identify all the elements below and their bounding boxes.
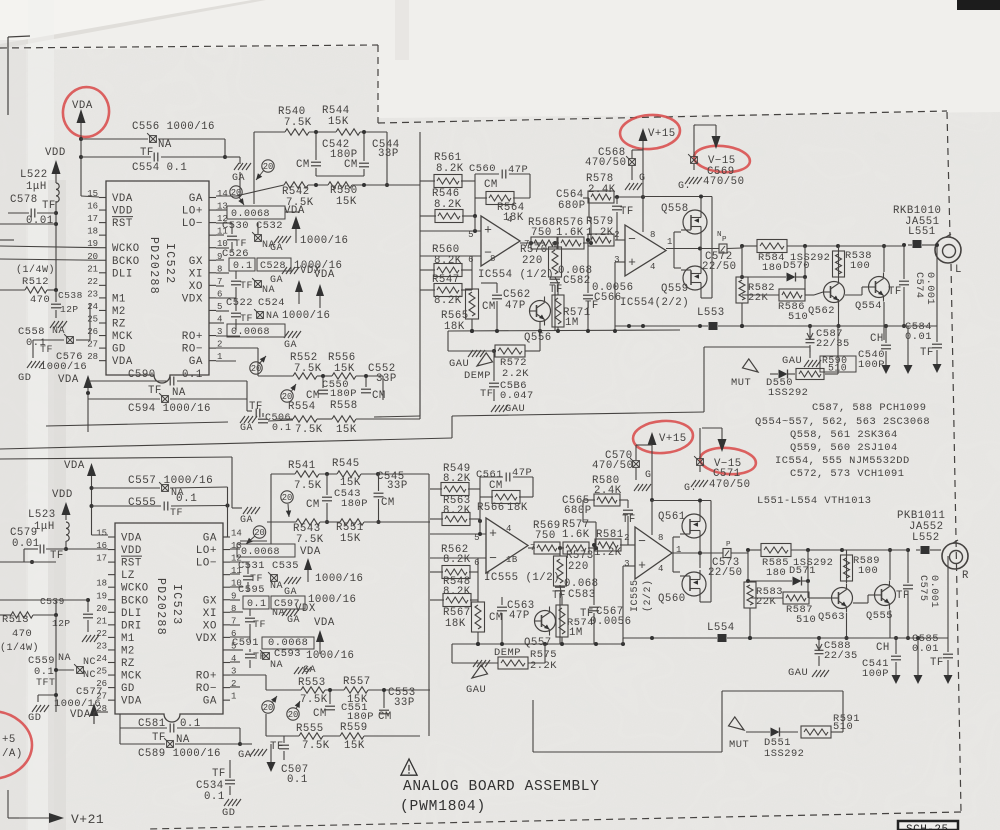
svg-text:21: 21 xyxy=(96,616,107,626)
junction mark 20 xyxy=(262,696,277,713)
dashed board outline bottom xyxy=(148,812,961,829)
svg-text:RZ: RZ xyxy=(121,658,135,670)
wire xyxy=(247,381,252,411)
ground GD top xyxy=(18,361,44,384)
svg-text:(1/4W): (1/4W) xyxy=(0,642,39,654)
ground GA xyxy=(270,236,291,254)
svg-text:7.5K: 7.5K xyxy=(300,694,328,706)
svg-text:LO−: LO− xyxy=(196,558,217,570)
svg-text:TF: TF xyxy=(170,508,183,519)
ground GAU b xyxy=(466,660,490,696)
svg-text:CM: CM xyxy=(306,499,320,511)
svg-text:VDD: VDD xyxy=(52,489,73,501)
red circle annotation VDA xyxy=(60,84,113,140)
svg-text:Q561: Q561 xyxy=(658,511,686,523)
svg-text:33P: 33P xyxy=(394,697,415,709)
svg-text:2: 2 xyxy=(624,533,630,543)
capacitor C571 xyxy=(694,452,750,491)
diode D551 xyxy=(746,728,804,761)
svg-text:C577: C577 xyxy=(76,686,103,698)
svg-text:470/50: 470/50 xyxy=(592,460,633,472)
wire long vertical xyxy=(46,132,420,426)
wire xyxy=(699,428,701,452)
svg-text:25: 25 xyxy=(96,667,107,677)
transistor Q562 xyxy=(808,246,845,328)
svg-text:8: 8 xyxy=(650,230,656,240)
svg-text:VDA: VDA xyxy=(112,193,133,205)
svg-text:23: 23 xyxy=(87,289,98,299)
svg-text:TF: TF xyxy=(270,741,284,753)
resistor R569 xyxy=(533,520,561,554)
wire xyxy=(258,348,383,400)
svg-text:VDX: VDX xyxy=(295,603,316,615)
svg-text:21: 21 xyxy=(87,264,98,274)
svg-text:180: 180 xyxy=(766,567,786,579)
svg-text:TF: TF xyxy=(148,385,162,397)
ground G b2 xyxy=(684,480,708,494)
svg-text:8.2K: 8.2K xyxy=(436,163,464,175)
svg-text:1000/16: 1000/16 xyxy=(315,573,363,585)
resistor R543 xyxy=(293,519,324,546)
resistor R542 xyxy=(282,182,314,209)
svg-text:VDX: VDX xyxy=(196,633,217,645)
svg-text:14: 14 xyxy=(217,189,228,199)
wire xyxy=(236,183,420,196)
svg-text:33P: 33P xyxy=(387,480,408,492)
svg-text:TF: TF xyxy=(253,620,266,631)
svg-text:GA: GA xyxy=(240,515,253,526)
resistor R568 xyxy=(528,217,557,249)
svg-text:D570: D570 xyxy=(783,260,810,272)
power label V+15 b xyxy=(659,433,687,445)
wire GAU staircase xyxy=(452,347,810,416)
capacitor C524 NA xyxy=(254,297,330,322)
svg-text:NA: NA xyxy=(52,326,65,337)
svg-text:100: 100 xyxy=(858,565,878,577)
power label V+15 xyxy=(648,128,676,140)
svg-text:VDD: VDD xyxy=(45,147,66,159)
dashed board outline top xyxy=(0,45,378,48)
svg-text:0.047: 0.047 xyxy=(500,390,534,402)
svg-text:24: 24 xyxy=(87,302,98,312)
svg-text:CM: CM xyxy=(372,390,386,402)
svg-text:6: 6 xyxy=(474,558,480,568)
wire xyxy=(223,487,228,537)
svg-text:220: 220 xyxy=(568,561,589,573)
label C574 0.001 xyxy=(913,272,935,305)
node VDA label xyxy=(72,100,93,112)
svg-text:GA: GA xyxy=(287,615,300,626)
wire pin14 GA xyxy=(216,172,240,196)
svg-text:PD20288: PD20288 xyxy=(147,237,160,295)
svg-text:27: 27 xyxy=(87,340,98,350)
svg-text:Q559, 560 2SJ104: Q559, 560 2SJ104 xyxy=(790,442,898,454)
svg-text:TF: TF xyxy=(622,514,636,526)
svg-text:−: − xyxy=(638,534,646,549)
svg-text:VDA: VDA xyxy=(72,100,93,112)
wire pin13 xyxy=(216,209,222,211)
sheet label box bottom right xyxy=(898,821,958,830)
svg-text:0.1: 0.1 xyxy=(287,774,308,786)
svg-text:RKB1010: RKB1010 xyxy=(893,205,941,217)
wire xyxy=(223,139,240,164)
svg-text:VDA: VDA xyxy=(70,709,91,721)
power arrow V-15 xyxy=(696,125,721,149)
svg-text:22/35: 22/35 xyxy=(816,338,850,350)
fet Q559 xyxy=(661,264,707,295)
capacitor C541 xyxy=(862,658,889,680)
capacitor C583 xyxy=(552,578,599,644)
svg-text:L552: L552 xyxy=(912,532,940,544)
parts list text 2 xyxy=(757,495,872,507)
svg-text:C589 1000/16: C589 1000/16 xyxy=(138,748,221,760)
svg-text:R512: R512 xyxy=(22,276,49,288)
svg-text:GD: GD xyxy=(18,372,31,384)
capacitor C573 NP xyxy=(708,541,748,579)
capacitor C552 xyxy=(361,363,397,402)
transistor Q557 xyxy=(524,607,556,650)
wire xyxy=(420,256,472,290)
svg-text:C572, 573 VCH1091: C572, 573 VCH1091 xyxy=(790,468,905,480)
wire RO rows b xyxy=(230,675,266,687)
demp arrow b xyxy=(472,647,521,678)
IC523 left pins xyxy=(96,529,148,715)
svg-text:0.01: 0.01 xyxy=(12,538,40,550)
svg-text:C583: C583 xyxy=(568,589,596,601)
svg-text:VDA: VDA xyxy=(300,546,321,558)
ground GA b2 xyxy=(238,749,267,761)
left edge vertical line xyxy=(7,37,9,115)
svg-text:TF: TF xyxy=(580,608,594,620)
svg-text:1SS292: 1SS292 xyxy=(764,748,804,760)
capacitor C559 xyxy=(28,615,83,712)
svg-text:1M: 1M xyxy=(569,627,583,639)
capacitor C526 xyxy=(222,248,255,272)
svg-text:R545: R545 xyxy=(332,458,360,470)
svg-text:0.1: 0.1 xyxy=(182,369,203,381)
capacitor C564 xyxy=(556,189,591,243)
svg-text:GAU: GAU xyxy=(788,667,808,679)
power arrow V-15 b xyxy=(702,428,727,452)
svg-text:16: 16 xyxy=(96,541,107,551)
svg-text:0.01: 0.01 xyxy=(905,331,932,343)
svg-text:GD: GD xyxy=(28,712,41,724)
svg-text:JA551: JA551 xyxy=(905,216,940,228)
svg-text:NA: NA xyxy=(262,285,275,296)
svg-text:NA: NA xyxy=(270,660,283,671)
svg-text:+: + xyxy=(638,558,646,573)
svg-text:DRI: DRI xyxy=(121,620,142,632)
svg-text:(2/2): (2/2) xyxy=(642,579,654,612)
svg-text:TF: TF xyxy=(480,388,493,400)
resistor R570 xyxy=(520,241,562,283)
wire -in xyxy=(624,239,626,241)
resistor R581 xyxy=(594,529,624,559)
svg-text:0.0056: 0.0056 xyxy=(590,616,631,628)
label (1/4W) top xyxy=(16,264,55,276)
svg-text:1000/16: 1000/16 xyxy=(306,650,354,662)
wire inputs xyxy=(420,216,481,256)
svg-text:3: 3 xyxy=(624,559,630,569)
signal ground arrow xyxy=(904,326,913,374)
svg-text:0.001: 0.001 xyxy=(928,575,939,608)
label +5 xyxy=(2,734,23,760)
resistor R572 xyxy=(492,345,529,380)
svg-text:Q557: Q557 xyxy=(524,637,552,649)
parts list text xyxy=(755,402,930,480)
svg-text:L522: L522 xyxy=(20,169,48,181)
svg-text:1000/16: 1000/16 xyxy=(300,235,348,247)
capacitor C534 xyxy=(196,760,235,803)
capacitor C539 xyxy=(40,596,93,632)
capacitor C590 xyxy=(88,369,247,397)
signal ground arrow xyxy=(933,364,942,373)
svg-text:0.1: 0.1 xyxy=(34,666,54,678)
resistor R546 xyxy=(432,188,463,223)
resistor R591 xyxy=(801,691,860,738)
capacitor C588 xyxy=(815,636,858,666)
svg-text:TF: TF xyxy=(552,590,566,602)
svg-text:NC: NC xyxy=(83,670,96,681)
power arrow VDD xyxy=(52,160,61,183)
resistor R573 xyxy=(554,546,594,597)
resistor R583 xyxy=(744,581,783,640)
ground GA b xyxy=(294,665,316,676)
label VDX GA xyxy=(272,603,316,626)
svg-text:VDX: VDX xyxy=(182,293,203,305)
wire xyxy=(266,714,420,736)
svg-text:VDA: VDA xyxy=(121,533,142,545)
svg-text:180P: 180P xyxy=(341,498,368,510)
svg-text:470/50: 470/50 xyxy=(709,479,750,491)
svg-text:12P: 12P xyxy=(60,304,79,315)
capacitor C531 xyxy=(238,560,265,592)
svg-text:C587, 588 PCH1099: C587, 588 PCH1099 xyxy=(812,402,927,414)
svg-text:TF: TF xyxy=(42,200,56,212)
wire VDA to IC bottom xyxy=(58,374,93,432)
wire IC523 pin rows xyxy=(230,549,250,662)
wire xyxy=(470,289,474,333)
svg-text:CM: CM xyxy=(381,497,395,509)
wire xyxy=(583,198,591,218)
svg-text:25: 25 xyxy=(87,315,98,325)
svg-text:C530: C530 xyxy=(222,220,249,232)
svg-text:GD: GD xyxy=(112,344,126,356)
svg-text:1: 1 xyxy=(231,692,236,702)
svg-text:RO+: RO+ xyxy=(196,671,217,683)
svg-text:100P: 100P xyxy=(862,668,889,680)
svg-text:22/35: 22/35 xyxy=(824,650,858,662)
svg-text:Q556: Q556 xyxy=(524,332,552,344)
svg-text:23: 23 xyxy=(96,641,107,651)
svg-text:XO: XO xyxy=(189,281,203,293)
svg-text:+: + xyxy=(489,526,497,541)
svg-text:7.5K: 7.5K xyxy=(294,363,322,375)
svg-text:1B: 1B xyxy=(506,555,518,565)
warning triangle xyxy=(401,759,417,775)
svg-text:47P: 47P xyxy=(509,610,530,622)
wire xyxy=(452,644,545,663)
svg-text:22: 22 xyxy=(87,277,98,287)
svg-text:CM: CM xyxy=(489,612,503,624)
node VDA label xyxy=(284,205,305,243)
svg-text:15K: 15K xyxy=(334,363,355,375)
svg-text:TF: TF xyxy=(40,345,53,356)
wire xyxy=(528,545,635,550)
capacitor C562 CM xyxy=(482,283,531,331)
wire VDA rail xyxy=(79,137,99,197)
svg-text:+5: +5 xyxy=(2,734,16,746)
svg-text:P: P xyxy=(726,541,731,549)
svg-text:GA: GA xyxy=(240,423,253,434)
resistor R580 xyxy=(583,475,628,522)
svg-text:GAU: GAU xyxy=(782,355,802,367)
svg-text:20: 20 xyxy=(282,493,293,503)
svg-text:NA: NA xyxy=(270,581,283,592)
svg-text:12P: 12P xyxy=(52,618,71,629)
svg-text:IC555: IC555 xyxy=(630,579,641,612)
wire xyxy=(316,175,364,177)
wire out to C573 xyxy=(700,552,723,554)
svg-text:R557: R557 xyxy=(343,676,371,688)
capacitor C593 xyxy=(245,648,354,671)
svg-text:33P: 33P xyxy=(378,148,399,160)
wire fet bracket xyxy=(643,195,712,299)
svg-text:TF: TF xyxy=(549,284,563,296)
svg-text:0.1: 0.1 xyxy=(233,261,253,272)
DAC IC522 body xyxy=(106,181,209,383)
resistor R552 xyxy=(290,352,322,379)
svg-text:15K: 15K xyxy=(344,740,365,752)
svg-text:15: 15 xyxy=(87,189,98,199)
svg-text:1.2K: 1.2K xyxy=(594,547,622,559)
capacitor C544 xyxy=(344,130,400,176)
wire fet bracket b xyxy=(652,499,711,603)
inductor L522 xyxy=(20,169,59,290)
node VDX arrow xyxy=(295,280,303,304)
wire xyxy=(0,224,56,240)
svg-text:GA: GA xyxy=(270,243,283,254)
capacitor C597 boxed xyxy=(271,594,356,610)
wire xyxy=(430,558,478,600)
capacitor TF NA xyxy=(231,271,275,298)
ground GAU xyxy=(491,403,525,415)
power label V-15 xyxy=(708,155,736,167)
svg-text:20: 20 xyxy=(96,604,107,614)
svg-text:C591: C591 xyxy=(232,637,259,649)
mute arrow b xyxy=(729,717,750,751)
svg-text:GA: GA xyxy=(284,340,297,351)
svg-text:WCKO: WCKO xyxy=(112,243,140,255)
capacitor C577 xyxy=(54,686,103,710)
wire xyxy=(651,500,653,535)
title PWM1804 xyxy=(400,799,486,815)
svg-text:2: 2 xyxy=(231,679,236,689)
label JA551 xyxy=(905,216,940,228)
svg-text:GA: GA xyxy=(238,749,252,761)
svg-text:R558: R558 xyxy=(330,400,358,412)
svg-text:C528: C528 xyxy=(260,261,286,272)
resistor R554 xyxy=(288,401,323,436)
svg-text:33P: 33P xyxy=(376,373,397,385)
svg-text:PD20288: PD20288 xyxy=(154,578,167,636)
svg-text:22/50: 22/50 xyxy=(702,261,737,273)
wire left edge rows xyxy=(0,599,56,601)
svg-text:4: 4 xyxy=(506,524,512,534)
svg-text:100P: 100P xyxy=(858,359,885,371)
ground GA xyxy=(232,163,251,184)
svg-text:C578: C578 xyxy=(10,194,38,206)
svg-text:0.0068: 0.0068 xyxy=(231,209,270,220)
signal ground arrow xyxy=(882,365,891,374)
resistor R512 xyxy=(0,276,58,306)
svg-text:C582: C582 xyxy=(563,275,591,287)
red circle annotation +5 xyxy=(0,711,32,779)
wire xyxy=(615,262,625,331)
mute arrow xyxy=(731,359,758,389)
svg-text:PKB1011: PKB1011 xyxy=(897,510,945,522)
svg-text:XI: XI xyxy=(203,608,217,620)
label VDX GA xyxy=(270,265,321,286)
junction mark 20 xyxy=(281,384,296,402)
svg-text:LZ: LZ xyxy=(121,570,135,582)
svg-text:(PWM1804): (PWM1804) xyxy=(400,799,486,815)
capacitor C506 xyxy=(258,413,292,434)
svg-text:7.5K: 7.5K xyxy=(296,534,324,546)
label 1000/16 xyxy=(315,573,363,585)
svg-text:G: G xyxy=(639,173,646,184)
power arrow V+15 b xyxy=(648,432,657,502)
svg-text:7.5K: 7.5K xyxy=(294,480,322,492)
svg-text:IC554(2/2): IC554(2/2) xyxy=(620,297,689,309)
capacitor C557 NA xyxy=(92,475,228,499)
diode D570 xyxy=(740,246,810,282)
svg-text:SCH-25: SCH-25 xyxy=(906,824,949,830)
signal ground arrow r3 xyxy=(914,636,923,684)
pin numbers xyxy=(474,524,536,568)
resistor R548 xyxy=(443,576,471,607)
svg-text:−: − xyxy=(489,551,497,566)
wire xyxy=(448,331,540,351)
junction mark 20 xyxy=(287,701,300,720)
svg-text:V+21: V+21 xyxy=(71,812,104,827)
junction mark 20 xyxy=(246,526,266,544)
svg-text:Q559: Q559 xyxy=(661,283,689,295)
signal ground arrow r xyxy=(892,675,901,684)
capacitor TF b xyxy=(245,609,266,641)
title ANALOG BOARD ASSEMBLY xyxy=(403,779,600,795)
svg-text:680P: 680P xyxy=(558,200,586,212)
svg-text:19: 19 xyxy=(87,239,98,249)
resistor R571 xyxy=(552,283,591,331)
svg-text:VDD: VDD xyxy=(121,545,142,557)
svg-text:Q563: Q563 xyxy=(818,611,845,623)
svg-text:G.: G. xyxy=(684,483,697,494)
capacitor C565 xyxy=(562,495,596,548)
svg-text:CM: CM xyxy=(344,159,358,171)
svg-text:1SS292: 1SS292 xyxy=(768,387,808,399)
wire xyxy=(623,566,635,644)
svg-text:Q555: Q555 xyxy=(866,610,893,622)
wire xyxy=(694,125,696,150)
svg-text:Q558: Q558 xyxy=(661,203,689,215)
feedback cap 0.0068 boxed xyxy=(227,324,285,338)
node VDA label xyxy=(314,269,335,308)
svg-text:17: 17 xyxy=(87,214,98,224)
capacitor C535 NA xyxy=(268,560,299,592)
svg-text:G.: G. xyxy=(678,181,691,192)
svg-text:R559: R559 xyxy=(340,722,368,734)
